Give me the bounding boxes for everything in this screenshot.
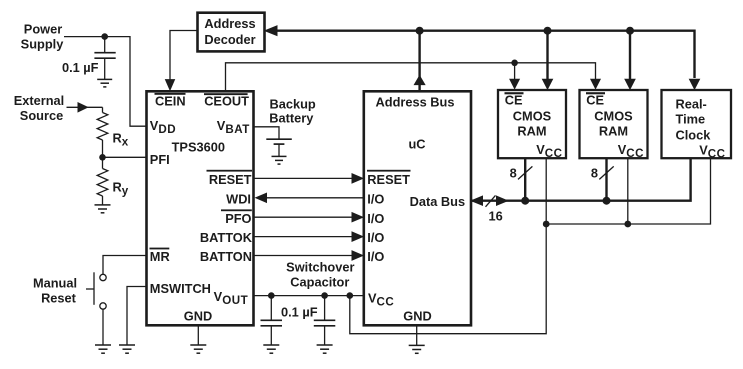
wire: RAM1 VCC leg bbox=[545, 158, 547, 224]
svg-text:CE: CE bbox=[505, 92, 523, 107]
wire: WDI from uC bbox=[266, 197, 364, 199]
junction: CE line to RAM1 bbox=[511, 60, 518, 67]
resistor Rx bbox=[97, 113, 108, 141]
junction: data bus RAM1 bbox=[521, 197, 529, 205]
wire: TPS GND to ground bbox=[197, 325, 199, 344]
svg-text:I/O: I/O bbox=[367, 230, 384, 245]
svg-text:RAM: RAM bbox=[599, 124, 628, 139]
arrow: into RTC top bbox=[690, 79, 700, 89]
pin label: CEOUT (overline) bbox=[204, 93, 249, 108]
arrow: uC drives address bus (up) bbox=[414, 76, 424, 85]
capacitor C1 0.1uF bbox=[94, 53, 115, 79]
svg-text:8: 8 bbox=[591, 165, 598, 180]
arrow: data bus left (to uC) bbox=[471, 196, 482, 205]
slash: 8-bit RAM1 bbox=[518, 166, 532, 179]
svg-text:GND: GND bbox=[184, 308, 212, 323]
wire: cap C1 top lead bbox=[104, 37, 106, 52]
bus: data bus bbox=[471, 158, 690, 201]
svg-text:8: 8 bbox=[510, 165, 517, 180]
pin label: MR (overline) bbox=[150, 248, 170, 265]
slash: 16-bit bus width bbox=[486, 195, 496, 206]
svg-text:BATTON: BATTON bbox=[200, 249, 252, 264]
wire: MR to switch bbox=[103, 256, 147, 275]
svg-text:Battery: Battery bbox=[269, 110, 314, 125]
junction: cap C3 node bbox=[321, 292, 328, 299]
wire: CEOUT to CE line bbox=[226, 63, 596, 91]
wire: switch to ground bbox=[102, 309, 104, 345]
svg-text:Backup: Backup bbox=[270, 96, 316, 111]
svg-text:CMOS: CMOS bbox=[594, 109, 633, 124]
arrow: address bus into decoder bbox=[265, 26, 277, 36]
wire: RAM1 data leg bbox=[524, 158, 526, 201]
svg-text:I/O: I/O bbox=[367, 249, 384, 264]
arrow: BATTOK into uC bbox=[352, 232, 363, 241]
junction: cap C2 node bbox=[268, 292, 275, 299]
svg-text:I/O: I/O bbox=[367, 191, 384, 206]
junction: rail to RAM2 VCC bbox=[624, 221, 631, 228]
wire: RESET TPS to uC bbox=[254, 177, 354, 179]
arrow: into RAM1 CE bbox=[510, 79, 519, 88]
svg-text:Address: Address bbox=[204, 16, 255, 31]
wire: BATTOK to uC bbox=[254, 236, 354, 238]
svg-text:I/O: I/O bbox=[367, 211, 384, 226]
wire: RAM2 VCC leg bbox=[627, 158, 629, 224]
svg-text:CMOS: CMOS bbox=[513, 109, 552, 124]
arrow: into RAM1 top bbox=[543, 79, 553, 89]
svg-text:BATTOK: BATTOK bbox=[200, 230, 253, 245]
arrow: into CEIN bbox=[166, 80, 175, 90]
ground: below switch bbox=[95, 345, 111, 353]
wire: BATTON to uC bbox=[254, 255, 354, 257]
junction: PFI divider node bbox=[99, 154, 106, 161]
ground: below battery bbox=[272, 156, 287, 164]
battery BT1 bbox=[266, 139, 292, 156]
wire: bus drop to uC bbox=[418, 31, 420, 91]
wire: external source input bbox=[67, 106, 103, 108]
wire: uC GND to ground bbox=[416, 325, 418, 345]
svg-text:Reset: Reset bbox=[41, 291, 77, 306]
pin label: RESET (overline) bbox=[207, 170, 253, 187]
svg-text:CEOUT: CEOUT bbox=[204, 93, 249, 108]
junction: data bus RAM2 bbox=[603, 197, 611, 205]
pin label: CEIN (overline) bbox=[155, 93, 186, 109]
svg-text:Time: Time bbox=[676, 112, 706, 127]
ground: uC GND bbox=[409, 345, 425, 353]
junction: rail to RAM1 VCC bbox=[543, 221, 550, 228]
svg-text:RESET: RESET bbox=[209, 172, 252, 187]
ground: TPS3600 GND bbox=[190, 345, 206, 353]
arrow: data bus right bbox=[497, 196, 508, 205]
slash: 8-bit RAM2 bbox=[599, 166, 613, 179]
svg-text:CE: CE bbox=[586, 92, 604, 107]
ground: below C1 bbox=[97, 79, 112, 87]
node: Manual Reset label bbox=[33, 276, 77, 306]
resistor Ry bbox=[97, 169, 108, 197]
svg-text:PFI: PFI bbox=[150, 152, 170, 167]
svg-text:Manual: Manual bbox=[33, 276, 77, 291]
arrow: external source into divider bbox=[78, 103, 88, 112]
wire: RAM2 data leg bbox=[605, 158, 607, 201]
svg-text:Real-: Real- bbox=[676, 97, 707, 112]
pin label: RESET uC (overline) bbox=[367, 170, 411, 187]
svg-text:MR: MR bbox=[150, 249, 170, 264]
svg-text:External: External bbox=[14, 93, 65, 108]
wire: bus drop to RAM2 bbox=[629, 31, 631, 80]
switch S1 (manual reset pushbutton) bbox=[86, 272, 106, 309]
arrow: PFO into uC bbox=[352, 213, 363, 222]
wire: power supply to VDD bbox=[64, 37, 147, 127]
IC U4: CMOS RAM 1 box bbox=[498, 90, 566, 158]
svg-text:Supply: Supply bbox=[21, 37, 65, 52]
wire: PFO to uC bbox=[254, 216, 354, 218]
wire: divider top bbox=[102, 107, 104, 112]
wire: C2 top lead bbox=[270, 296, 272, 320]
svg-text:Switchover: Switchover bbox=[286, 259, 354, 274]
node: Backup Battery label bbox=[269, 96, 316, 125]
wire: Rx bottom to PFI node bbox=[102, 140, 104, 157]
capacitor C2 0.1uF bbox=[261, 320, 283, 344]
wire: C3 top lead bbox=[324, 296, 326, 320]
svg-text:Decoder: Decoder bbox=[204, 32, 255, 47]
bus: address bus (top) bbox=[276, 31, 695, 78]
wire: VBAT to battery bbox=[254, 127, 280, 139]
svg-text:Clock: Clock bbox=[676, 128, 712, 143]
svg-text:Source: Source bbox=[20, 108, 63, 123]
wire: VCC rail horizontal bbox=[546, 158, 710, 224]
IC U5: CMOS RAM 2 box bbox=[580, 90, 648, 158]
node: Switchover Capacitor label bbox=[286, 259, 354, 289]
svg-text:MSWITCH: MSWITCH bbox=[150, 281, 211, 296]
svg-text:TPS3600: TPS3600 bbox=[172, 140, 225, 155]
junction: bus to RAM1 bbox=[544, 27, 552, 35]
svg-text:Address Bus: Address Bus bbox=[376, 94, 455, 109]
wire: Ry to ground bbox=[102, 196, 104, 205]
node: External Source label bbox=[14, 93, 65, 123]
svg-text:Power: Power bbox=[24, 22, 62, 37]
arrow: WDI into TPS bbox=[256, 193, 267, 202]
wire: node to Ry bbox=[102, 157, 104, 168]
capacitor C3 0.1uF bbox=[314, 320, 336, 344]
svg-text:Data Bus: Data Bus bbox=[410, 194, 465, 209]
pin label: PFO (overline) bbox=[221, 209, 252, 225]
svg-text:0.1 µF: 0.1 µF bbox=[281, 305, 318, 320]
svg-text:Capacitor: Capacitor bbox=[290, 274, 349, 289]
svg-text:uC: uC bbox=[408, 137, 425, 152]
IC U3: uC box bbox=[364, 91, 471, 325]
ground: below C3 bbox=[317, 345, 333, 353]
svg-text:RESET: RESET bbox=[367, 172, 410, 187]
arrow: BATTON into uC bbox=[352, 251, 363, 260]
svg-text:WDI: WDI bbox=[226, 191, 251, 206]
junction: bus to uC bbox=[416, 27, 424, 35]
wire: CE drop to RAM1 bbox=[514, 63, 516, 80]
junction: bus to RAM2 bbox=[626, 27, 634, 35]
junction: power/cap node bbox=[101, 33, 108, 40]
wire: decoder output to CEIN bbox=[170, 31, 198, 81]
IC U1: TPS3600 box bbox=[147, 91, 254, 325]
wire: bus drop to RAM1 bbox=[546, 31, 548, 80]
svg-text:RAM: RAM bbox=[517, 124, 546, 139]
ground: below C2 bbox=[263, 345, 279, 353]
arrow: RESET into uC bbox=[352, 174, 363, 183]
wire: VCC backup rail bbox=[350, 224, 546, 334]
wire: PFI bbox=[103, 156, 147, 158]
arrow: into RAM2 CE bbox=[591, 79, 600, 88]
svg-text:CEIN: CEIN bbox=[155, 93, 186, 108]
IC U2: Address Decoder box bbox=[198, 13, 265, 52]
svg-text:GND: GND bbox=[403, 308, 431, 323]
wire: VOUT to uC VCC bbox=[254, 295, 364, 297]
node: Power Supply label bbox=[21, 22, 65, 52]
ground: below MSWITCH bbox=[119, 345, 135, 353]
junction: VCC rail tap bbox=[347, 292, 354, 299]
arrow: into RAM2 top bbox=[625, 79, 635, 89]
IC U6: Real-Time Clock box bbox=[662, 90, 732, 158]
wire: MSWITCH to ground bbox=[127, 287, 147, 345]
svg-text:16: 16 bbox=[489, 209, 503, 224]
svg-text:0.1 µF: 0.1 µF bbox=[62, 60, 99, 75]
ground: below Ry bbox=[95, 205, 111, 213]
svg-text:PFO: PFO bbox=[225, 211, 251, 226]
